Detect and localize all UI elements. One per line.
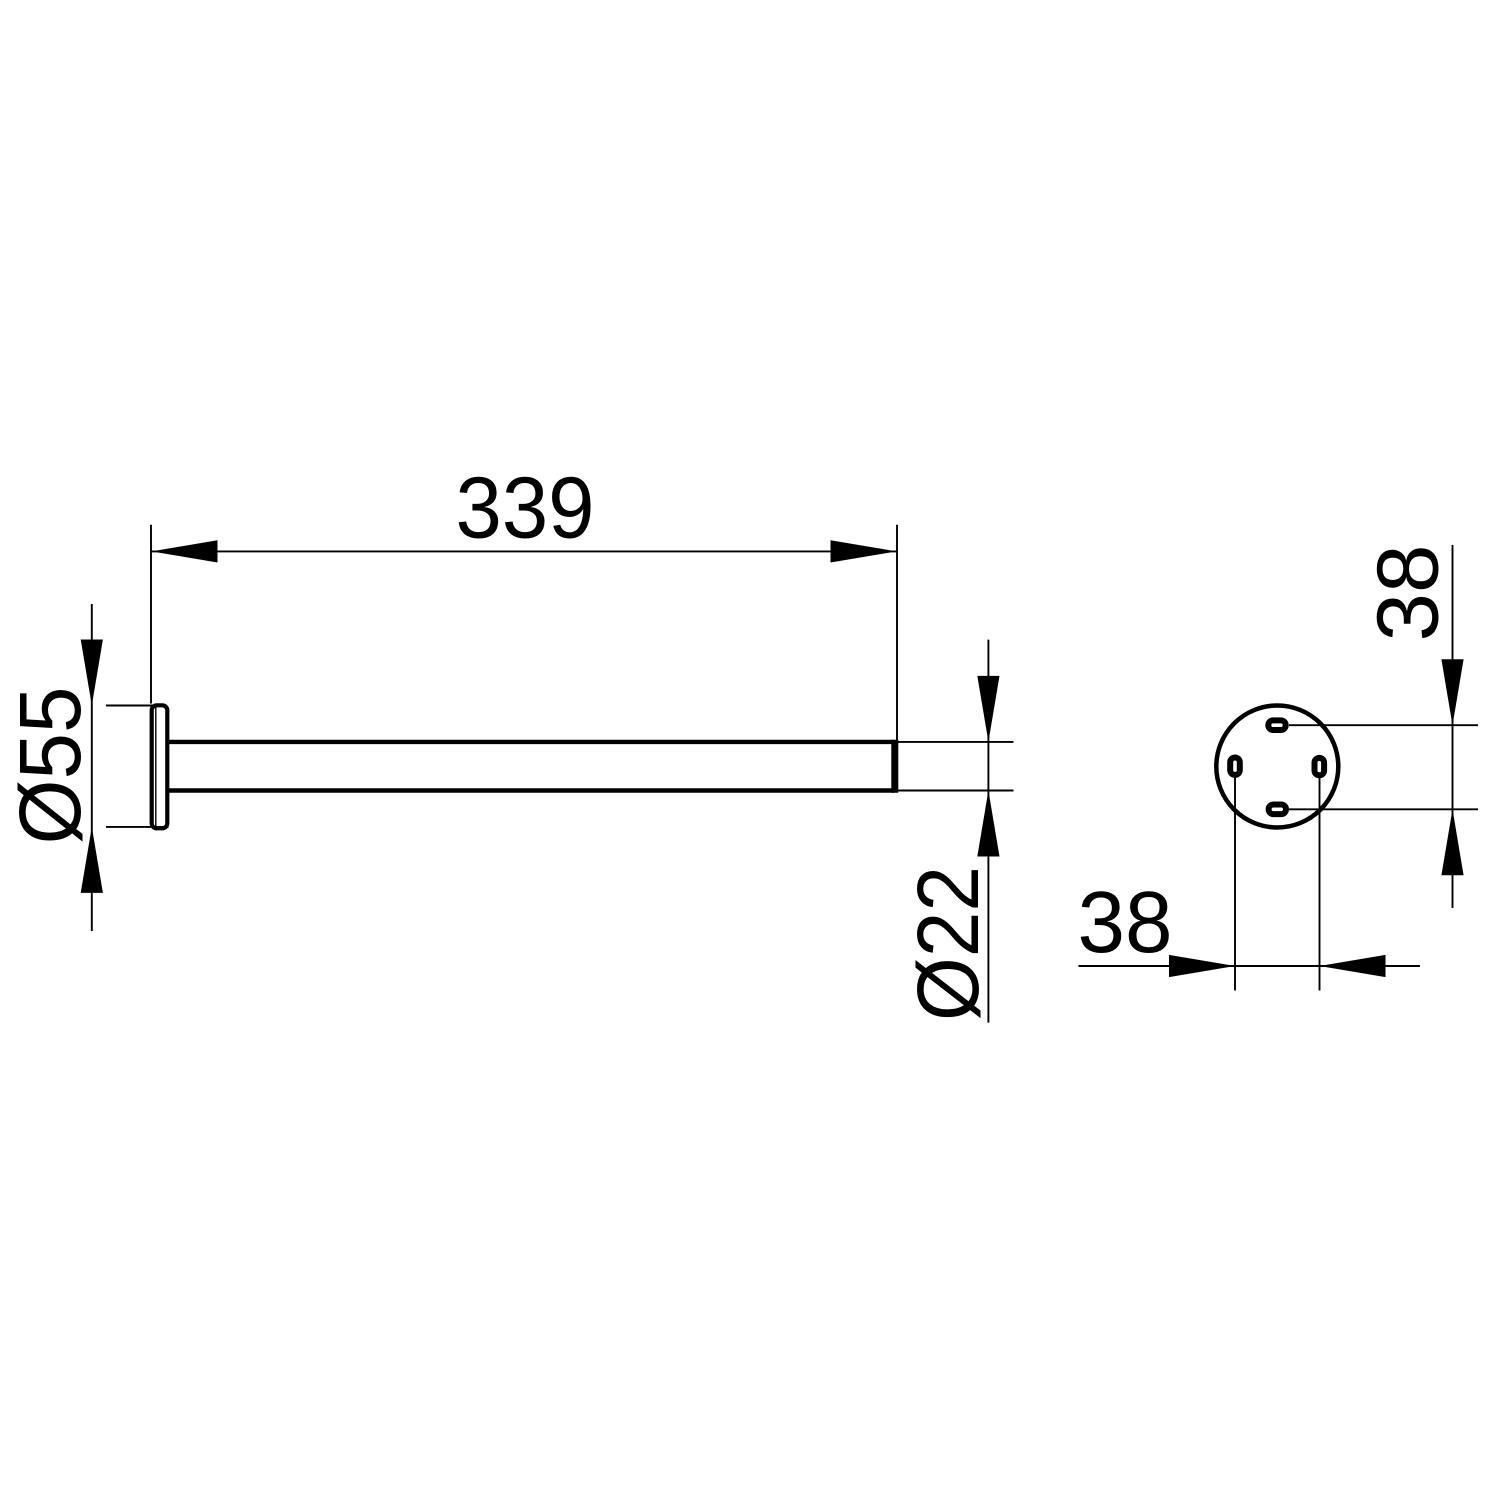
dimension D55: dimension line [91,604,93,931]
dimension 38 horizontal: right arrow [1320,955,1386,977]
dimension D22: bottom arrow [977,791,999,857]
dimension 38 horizontal: dimension line [1079,965,1421,967]
slot left [1230,758,1240,775]
bar outline bottom edge [169,788,895,792]
dimension 38 vertical: bottom arrow [1441,809,1463,875]
dimension 339: right arrow [831,540,897,562]
dimension 38 horizontal: left extension line [1234,778,1236,991]
svg-text:38: 38 [1078,874,1173,971]
dimension 38 horizontal: left arrow [1169,955,1235,977]
dimension 339: left arrow [152,540,218,562]
mounting plate circle [1216,706,1338,828]
dimension D55: top extension line [106,705,153,707]
bar end cap [891,740,898,793]
dimension 38 vertical: dimension line [1452,545,1454,908]
dimension 38 vertical: bottom extension line [1288,808,1478,810]
dimension D22: dimension line [987,640,989,1023]
slot top [1268,720,1285,730]
svg-text:Ø55: Ø55 [2,687,99,845]
dimension D55: top arrow [81,640,103,706]
bar outline top edge [169,740,895,744]
slot right [1315,758,1325,775]
dimension 339: right extension line [896,525,898,742]
slot bottom [1269,805,1286,815]
svg-text:38: 38 [1360,545,1457,642]
dimension D22: top arrow [977,676,999,742]
dimension 38 horizontal: right extension line [1319,778,1321,991]
svg-text:339: 339 [456,460,595,557]
dimension 38 vertical: top arrow [1441,659,1463,725]
dimension 339: left extension line [150,525,152,704]
svg-text:Ø22: Ø22 [900,866,997,1021]
dimension D55: bottom extension line [106,826,169,828]
dimension D55: bottom arrow [81,827,103,893]
wall plate outer [152,705,168,828]
wall plate inner edge line [155,708,157,827]
dimension D22: top extension line [896,741,1014,743]
dimension 38 vertical: top extension line [1289,724,1478,726]
dimension D22: bottom extension line [896,790,1014,792]
dimension 339: dimension line [151,550,897,552]
